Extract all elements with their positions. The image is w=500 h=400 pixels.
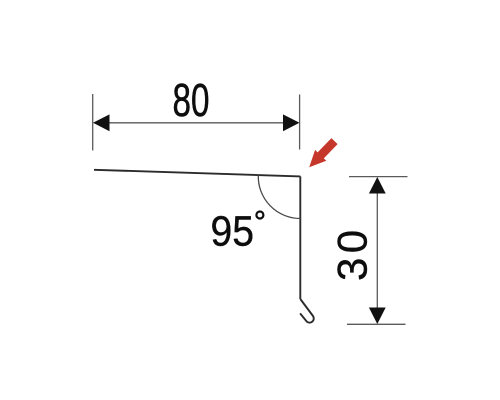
extension line top of dimension 30 (349, 176, 408, 178)
arrowhead right of dimension 80 (283, 114, 300, 131)
arrowhead left of dimension 80 (93, 114, 110, 131)
angle arc 95 degrees (258, 175, 300, 218)
profile vertical face (299, 176, 301, 299)
red pointer arrow at corner (304, 136, 340, 173)
dimension line 80 (105, 122, 288, 124)
angle label 95 degrees (211, 207, 264, 255)
arrowhead bottom of dimension 30 (369, 308, 386, 325)
svg-text:80: 80 (173, 73, 210, 126)
extension line right of dimension 80 (299, 95, 301, 150)
svg-text:30: 30 (329, 225, 376, 281)
degree symbol of angle label (256, 212, 263, 219)
profile bottom drip hook (300, 299, 314, 323)
dimension line 30 (376, 189, 378, 312)
arrowhead top of dimension 30 (369, 177, 386, 194)
extension line bottom of dimension 30 (347, 323, 406, 325)
svg-text:95: 95 (211, 207, 254, 255)
extension line left of dimension 80 (92, 94, 94, 151)
profile top flange (sloped) (94, 170, 300, 177)
